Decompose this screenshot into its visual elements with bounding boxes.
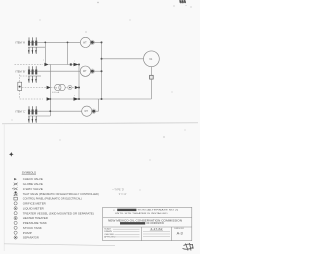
svg-text:ITEM ‘C’: ITEM ‘C’ (16, 109, 26, 113)
legend symbol: pressure tank (14, 221, 17, 224)
svg-text:DRAWN: DRAWN (104, 230, 112, 233)
reference star note (9, 152, 14, 157)
svg-text:ITEM ‘B’: ITEM ‘B’ (16, 69, 26, 73)
wire: secondary bus B (28, 75, 41, 77)
flow arrow at x=44.5 y=64.5 (44, 63, 48, 66)
svg-text:ON COORDINATION: ON COORDINATION (146, 222, 164, 225)
wire: meter bus x=79 (78, 65, 80, 100)
svg-text:ORIFICE METER: ORIFICE METER (23, 202, 46, 206)
wire: vertical riser x=101.5 (101, 42, 103, 99)
instrument arrow y=87.5 right into bus (75, 86, 79, 89)
svg-text:A-3: A-3 (177, 230, 183, 235)
legend symbol: control panel (14, 197, 17, 200)
wire: dashed instrument line y=87.5 (22, 86, 75, 88)
transmitter pair (double circle) (55, 84, 66, 90)
flow arrow into bus at y=64.5 (74, 63, 79, 66)
svg-text:GLOBE VALVE: GLOBE VALVE (23, 182, 43, 186)
flow arrow on bottom header (74, 97, 79, 100)
controller box on dashed control line (18, 82, 22, 90)
svg-text:PRESSURE TANK: PRESSURE TANK (23, 221, 47, 225)
wire: dashed control run y=99 (20, 98, 43, 100)
svg-text:CHECK VALVE: CHECK VALVE (23, 177, 43, 181)
title block frame (103, 207, 192, 240)
wire: secondary bus A (28, 46, 45, 48)
title block left cell: scale/drawn rows with leaders (104, 228, 116, 239)
meter M3 (WT) on ITEM C (82, 106, 96, 116)
wire: generator drop x=151.4 (150, 67, 152, 99)
meter M1 (WT) on ITEM A (80, 37, 94, 47)
scan specks (12, 2, 186, 191)
wire: riser x=98.5 (98, 99, 100, 111)
svg-text:WT: WT (83, 42, 87, 44)
indicator circle (68, 85, 72, 89)
wire: bottom header y=99 (47, 98, 151, 100)
svg-text:PUMP: PUMP (23, 231, 32, 235)
terminal T3 (92, 110, 95, 113)
wire: dashed sense line y=64.5 from ITEM B area (15, 64, 44, 66)
junction node dots (44, 41, 102, 112)
svg-text:SEPARATOR: SEPARATOR (23, 236, 39, 240)
legend symbol: treater vessel (14, 212, 17, 215)
svg-text:LIQUID METER: LIQUID METER (23, 206, 44, 210)
bottom-right stamp (183, 243, 194, 251)
wire: ITEM B feeder (28, 70, 80, 72)
wire: vertical drop x=50.3 to ITEM C (49, 65, 51, 117)
svg-text:STOCK TANK: STOCK TANK (23, 226, 42, 230)
svg-text:APPROVED: APPROVED (104, 235, 116, 238)
tiny annotation marks (43, 60, 75, 98)
svg-text:TION (ALTERNATE NO 2): TION (ALTERNATE NO 2) (137, 209, 178, 212)
svg-text:3-WAY VALVE: 3-WAY VALVE (23, 187, 43, 191)
svg-text:HEATER TREATER: HEATER TREATER (23, 216, 48, 220)
bottom faint rule (4, 244, 115, 246)
wire: dashed control line above controller (19, 75, 21, 83)
top-right handwritten stamp (179, 0, 186, 3)
meter M2 (WT) on generator tap (80, 66, 94, 76)
terminal T2 (91, 70, 94, 73)
legend symbol: liquid meter (14, 207, 17, 210)
svg-text:NEW MEXICO OIL CONSERVATION CO: NEW MEXICO OIL CONSERVATION COMMISSION (108, 219, 182, 222)
svg-text:UNTIL SITE THEATER IS INSTALLE: UNTIL SITE THEATER IS INSTALLED (115, 212, 168, 215)
svg-text:9′ X 12′: 9′ X 12′ (119, 193, 127, 196)
svg-text:THAT VALVE (PNEUMATIC OR ELECT: THAT VALVE (PNEUMATIC OR ELECTRICALLY CO… (23, 192, 99, 196)
wire: ITEM A feeder (28, 41, 102, 43)
fuse bank FB (ITEM B): three CT/fuse units (28, 66, 37, 83)
wire: horizontal y=64.5 to bus (49, 64, 80, 66)
valve V1 (dark square) under generator (150, 75, 154, 79)
legend symbol: 3-way valve (12, 188, 18, 190)
wire: ITEM C feeder (28, 110, 99, 112)
fuse bank FA (ITEM A): three CT/fuse units (28, 37, 37, 54)
wire: vertical drop x=67.5 from feeder A (67, 42, 69, 64)
legend symbol: stock tank (14, 226, 17, 229)
svg-text:—TYPE ‘D’: —TYPE ‘D’ (112, 189, 125, 192)
legend symbol: check valve (14, 178, 17, 180)
legend symbol: orifice meter (14, 202, 17, 205)
wire: meter M2 tap to riser (91, 70, 102, 72)
legend symbol: globe valve (14, 183, 18, 185)
terminal T1 (91, 41, 94, 44)
wire: vertical drop x=45.3 from feeder A (44, 42, 46, 64)
legend symbol: motor valve (14, 194, 18, 196)
svg-text:SYMBOLS: SYMBOLS (22, 170, 36, 174)
wire: secondary bus C (28, 115, 50, 117)
branch arrow into drop at header (47, 97, 51, 101)
legend symbol: heater treater (14, 217, 17, 220)
wire: dashed control line below controller (19, 91, 21, 100)
small speck (163, 136, 164, 137)
fuse bank FC (ITEM C): three CT/fuse units (28, 106, 37, 123)
instrument arrow y=87.5 into drop (47, 86, 51, 89)
svg-text:ITEM ‘A’: ITEM ‘A’ (16, 41, 26, 45)
sheet separator line (2, 123, 198, 124)
wire: dashed B secondary spur (20, 75, 28, 77)
svg-text:CONTROL PANEL (PNEUMATIC OR EL: CONTROL PANEL (PNEUMATIC OR ELECTRICAL) (23, 197, 82, 201)
left page crease line (3, 125, 5, 252)
legend symbol: separator (14, 236, 17, 239)
svg-text:TREATER VESSEL (SKID MOUNTED O: TREATER VESSEL (SKID MOUNTED OR SEPARATE… (23, 211, 94, 215)
svg-text:WT: WT (83, 71, 87, 73)
legend symbol: pump (14, 231, 17, 234)
wire: branch y=58.8 to generator (102, 58, 144, 60)
generator G1 (144, 51, 160, 67)
svg-text:4-20 mA: 4-20 mA (52, 91, 60, 94)
svg-text:WT: WT (84, 111, 88, 113)
